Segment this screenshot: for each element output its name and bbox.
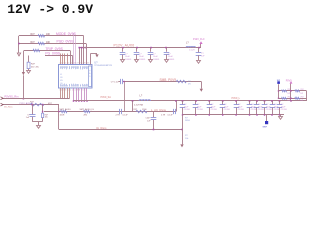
- svg-text:C1206: C1206: [281, 109, 288, 111]
- svg-text:TPS543620RPYR: TPS543620RPYR: [94, 65, 112, 67]
- svg-text:12V -> 0.9V: 12V -> 0.9V: [7, 2, 93, 17]
- svg-text:10K: 10K: [46, 34, 51, 36]
- svg-text:C?: C?: [168, 53, 172, 55]
- svg-text:10uF: 10uF: [139, 56, 145, 58]
- svg-text:R?: R?: [185, 135, 189, 137]
- svg-text:SMB_P0V9: SMB_P0V9: [160, 78, 177, 82]
- svg-text:R050: R050: [185, 120, 191, 122]
- svg-text:L?: L?: [140, 95, 143, 98]
- svg-text:100R: 100R: [60, 114, 65, 116]
- svg-text:PG_0V9S: PG_0V9S: [45, 52, 60, 56]
- svg-text:10uF: 10uF: [168, 56, 174, 58]
- svg-text:R?: R?: [185, 117, 189, 119]
- svg-text:0.1uF: 0.1uF: [123, 114, 129, 116]
- svg-text:C?: C?: [139, 53, 143, 55]
- svg-text:2.7R: 2.7R: [161, 114, 166, 116]
- svg-text:SMT_AUX0: SMT_AUX0: [60, 108, 72, 111]
- svg-text:SW?: SW?: [263, 127, 268, 129]
- svg-text:0R: 0R: [188, 83, 191, 85]
- svg-text:C0805: C0805: [168, 59, 175, 61]
- svg-text:R4?: R4?: [31, 64, 36, 66]
- svg-text:C1206: C1206: [211, 109, 218, 111]
- svg-text:10k: 10k: [185, 138, 189, 140]
- svg-text:C1206: C1206: [197, 109, 204, 111]
- svg-text:2.7R: 2.7R: [116, 114, 121, 116]
- svg-text:P0V9S_Rtn: P0V9S_Rtn: [4, 95, 19, 99]
- svg-text:4k7_NC: 4k7_NC: [31, 66, 39, 68]
- svg-text:U?: U?: [94, 60, 98, 64]
- svg-text:R4?: R4?: [31, 34, 36, 36]
- svg-text:L_AC_Rsns: L_AC_Rsns: [151, 108, 167, 112]
- svg-text:Vin_Rsns: Vin_Rsns: [4, 107, 13, 109]
- svg-text:1W: 1W: [287, 100, 290, 102]
- svg-text:10uF: 10uF: [153, 56, 159, 58]
- svg-text:C1206: C1206: [184, 109, 191, 111]
- svg-text:C1206: C1206: [258, 109, 265, 111]
- svg-text:1uF: 1uF: [201, 56, 205, 58]
- svg-text:PGD_0V9S: PGD_0V9S: [57, 39, 75, 43]
- svg-text:P12V_AUX0: P12V_AUX0: [114, 43, 135, 47]
- svg-text:41: 41: [60, 74, 62, 76]
- svg-text:1206: 1206: [142, 109, 147, 111]
- svg-text:1uF: 1uF: [147, 120, 151, 122]
- svg-text:1W: 1W: [300, 100, 303, 102]
- svg-text:0.4uH NB: 0.4uH NB: [134, 104, 144, 106]
- svg-text:R4?: R4?: [30, 102, 35, 104]
- svg-text:10k: 10k: [45, 117, 48, 119]
- svg-text:1uF: 1uF: [26, 117, 30, 119]
- svg-text:C?: C?: [153, 53, 157, 55]
- svg-text:10K: 10K: [46, 42, 51, 44]
- svg-text:TRIP_0V9S: TRIP_0V9S: [45, 47, 63, 51]
- svg-text:0.1uF: 0.1uF: [168, 114, 174, 116]
- svg-text:P0V9_SA: P0V9_SA: [101, 96, 112, 99]
- svg-text:C0805: C0805: [125, 59, 132, 61]
- svg-text:2R2: 2R2: [84, 114, 89, 116]
- svg-text:R4?: R4?: [31, 42, 36, 44]
- svg-text:1W: 1W: [287, 93, 290, 95]
- svg-text:L?: L?: [186, 41, 189, 44]
- svg-text:C04?: C04?: [146, 118, 152, 120]
- svg-text:C? 0.1uF: C? 0.1uF: [111, 82, 120, 84]
- svg-text:C?: C?: [125, 53, 129, 55]
- svg-text:Vo_Rsns: Vo_Rsns: [96, 126, 107, 130]
- svg-text:10uF: 10uF: [125, 56, 131, 58]
- svg-text:P0V9_L: P0V9_L: [232, 97, 241, 100]
- svg-text:C1206: C1206: [238, 109, 245, 111]
- svg-text:C0805: C0805: [139, 59, 146, 61]
- svg-text:P12V_FL0: P12V_FL0: [193, 38, 205, 41]
- svg-text:C1206: C1206: [266, 109, 273, 111]
- svg-text:2122232425262728293031: 2122232425262728293031: [60, 63, 92, 65]
- svg-text:1W: 1W: [300, 93, 303, 95]
- svg-text:1.0uH: 1.0uH: [189, 50, 195, 52]
- svg-text:C0805: C0805: [153, 59, 160, 61]
- svg-text:C1206: C1206: [224, 109, 231, 111]
- svg-text:2R2: 2R2: [300, 96, 303, 98]
- svg-text:2R2: 2R2: [300, 89, 303, 91]
- svg-text:SMT_AUX0_FL: SMT_AUX0_FL: [80, 108, 95, 111]
